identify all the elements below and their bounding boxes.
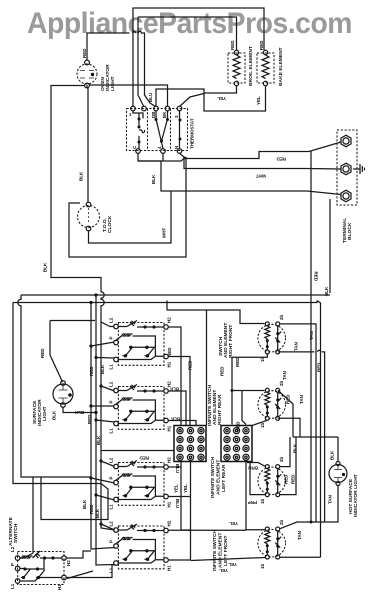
- alternate switch terminal labels: [10, 546, 71, 590]
- junction: E1 return / E2 feed: [231, 389, 234, 392]
- svg-text:THERMOSTAT: THERMOSTAT: [190, 118, 195, 149]
- svg-text:RIGHT FRONT: RIGHT FRONT: [228, 325, 234, 358]
- label: T.O.D. CLOCK: [102, 215, 113, 233]
- svg-text:BK: BK: [162, 111, 167, 118]
- switch unit 3 (left rear): [109, 457, 172, 510]
- svg-text:BLK: BLK: [96, 435, 101, 445]
- wire: grid2 col3 down to E4 top-left YEL: [246, 460, 265, 530]
- svg-text:RED: RED: [230, 40, 235, 50]
- svg-text:SWITCH: SWITCH: [13, 523, 19, 543]
- thermostat top terminals: [131, 106, 182, 111]
- wire: alt switch L2 feed: [20, 477, 33, 558]
- svg-text:BLK: BLK: [74, 410, 84, 415]
- svg-text:BLK: BLK: [52, 410, 57, 420]
- bus riser L1 (x96): [96, 295, 115, 565]
- wire: E1 1b-right to RED rail: [278, 350, 325, 437]
- label: OVEN INDICATOR LIGHT: [100, 64, 116, 91]
- manifold at y437: [293, 437, 338, 462]
- wire: oven light top to junction row: [87, 31, 156, 106]
- svg-text:BLK: BLK: [43, 262, 48, 272]
- svg-text:N: N: [174, 146, 179, 149]
- svg-text:WHT: WHT: [162, 228, 167, 238]
- wire: bake element return YEL: [204, 86, 266, 111]
- feeder diagonals to switch 1: [91, 342, 115, 358]
- wire: C terminal to BLK riser to terminal block row3: [138, 153, 341, 194]
- svg-text:RED: RED: [286, 394, 291, 404]
- svg-text:H2: H2: [66, 560, 71, 566]
- svg-text:BLK: BLK: [95, 508, 100, 518]
- wire: thermostat terminal 3 to element return: [180, 94, 205, 107]
- hot surface indicator light DS3: [329, 462, 347, 486]
- switch unit 4 (left front): [109, 520, 172, 573]
- svg-text:BLU: BLU: [148, 93, 153, 102]
- svg-text:4: 4: [157, 146, 162, 149]
- bus riser L2 (x101): [101, 322, 115, 530]
- thermostat terminal labels: [129, 111, 179, 149]
- wire: top loop to bake element: [133, 8, 264, 107]
- wire: SW3 H1 right BLU: [168, 496, 190, 498]
- wire: E3 1b-left PRP: [250, 462, 265, 495]
- svg-text:1b: 1b: [260, 563, 265, 569]
- terminal grid 1 (infinite switch right): [174, 426, 206, 462]
- wire: E1 2b to TAN rail: [280, 324, 316, 437]
- svg-text:RED: RED: [314, 272, 319, 282]
- wire: surface light feed RED: [50, 321, 95, 383]
- svg-text:YEL: YEL: [174, 484, 179, 493]
- svg-text:LEFT FRONT: LEFT FRONT: [223, 536, 229, 566]
- wire: SW4 H2 long right: [168, 529, 246, 531]
- alternate switch box: [15, 551, 66, 585]
- wire: SW2 H2 to grid: [168, 391, 186, 426]
- svg-text:RED: RED: [291, 474, 296, 484]
- svg-text:RED: RED: [139, 456, 149, 461]
- feeder diagonals to switch 2: [91, 386, 115, 422]
- svg-text:BLK: BLK: [293, 443, 298, 453]
- svg-text:YEL: YEL: [256, 96, 261, 105]
- svg-text:INDICATOR LIGHT: INDICATOR LIGHT: [353, 474, 359, 517]
- svg-text:BLK: BLK: [169, 387, 179, 392]
- svg-text:RED: RED: [235, 357, 240, 367]
- wire: N to WHT line to terminal block row2: [184, 157, 341, 169]
- svg-text:1b: 1b: [260, 498, 265, 504]
- label: SWITCH AND ELEMENT RIGHT FRONT: [218, 323, 234, 358]
- svg-text:2b: 2b: [279, 380, 284, 386]
- wire: E2 2b riser: [278, 390, 293, 437]
- label: ALTERNATE SWITCH: [8, 516, 19, 546]
- wire: feed to right front element from bus: [167, 301, 265, 426]
- label: SURFACE INDICATOR LIGHT: [32, 399, 48, 426]
- wire: alt switch H2 out: [66, 551, 91, 558]
- wire: SW4 H1 long right: [168, 559, 191, 561]
- svg-text:RIGHT REAR: RIGHT REAR: [217, 394, 223, 425]
- switch unit 1 (right front): [109, 317, 172, 370]
- wire: broil element return YEL: [156, 86, 237, 107]
- svg-text:BLK: BLK: [100, 364, 105, 374]
- wire: alt switch H1 out: [66, 565, 114, 578]
- wire: left bus drop inner: [13, 303, 108, 520]
- svg-text:RED: RED: [87, 414, 92, 424]
- element right front E1: [258, 322, 286, 354]
- wire: E1 1b-left to grid drop RED: [232, 354, 267, 425]
- bus riser P (x91): [91, 303, 115, 550]
- svg-text:L1: L1: [10, 583, 15, 589]
- wire: E3 1b-right risers RED: [280, 437, 296, 495]
- wire: SW1 H2 to grid1 col1: [168, 327, 181, 426]
- T.O.D. clock: [78, 202, 100, 231]
- svg-text:YEL: YEL: [228, 562, 237, 567]
- svg-text:3: 3: [174, 115, 179, 118]
- svg-text:RED: RED: [40, 348, 45, 358]
- wire: RED bus rail continues down: [317, 301, 321, 438]
- wire: hot light bottom TAN to E4 feed line: [280, 486, 338, 529]
- svg-text:INFINITE SWITCH: INFINITE SWITCH: [210, 457, 216, 498]
- svg-text:2b: 2b: [279, 456, 284, 462]
- svg-text:BLK: BLK: [170, 417, 180, 422]
- svg-text:1: 1: [129, 112, 132, 117]
- svg-text:TAN: TAN: [328, 495, 333, 504]
- bus RED L2 (lower horizontal): [13, 301, 317, 303]
- switch unit 2 (right rear): [109, 381, 172, 434]
- thermostat dashed box: [127, 109, 188, 151]
- svg-text:BLK: BLK: [82, 499, 87, 509]
- element left front E4: [258, 527, 286, 559]
- svg-text:L2: L2: [10, 546, 15, 552]
- bus BLK L1 (upper horizontal): [21, 294, 330, 296]
- oven indicator light DS1: [77, 60, 97, 88]
- terminal block dashed box: [337, 130, 357, 205]
- wire: clock loop (N terminal around clock): [69, 153, 186, 257]
- wire: E4 1b-right to rail: [280, 556, 321, 558]
- wire: RED line from thermostat to terminal block row1: [138, 142, 341, 161]
- svg-text:BAKE ELEMENT: BAKE ELEMENT: [278, 47, 284, 86]
- svg-text:TAN: TAN: [299, 395, 304, 404]
- svg-text:TAN: TAN: [297, 531, 302, 540]
- label: INFINITE SWITCH AND ELEMENT LEFT FRONT: [212, 530, 229, 571]
- label: HOT SURFACE INDICATOR LIGHT: [348, 474, 359, 517]
- svg-text:2b: 2b: [279, 314, 284, 320]
- wire: oven light bottom left run to switch bus: [51, 86, 114, 327]
- svg-text:CLOCK: CLOCK: [107, 215, 113, 233]
- svg-text:C: C: [132, 145, 137, 149]
- wire: oven light down to clock: [87, 88, 89, 202]
- svg-text:AND ELEMENT: AND ELEMENT: [216, 460, 222, 495]
- svg-text:LIGHT: LIGHT: [42, 406, 48, 421]
- wire: SW3 H2 right BLU: [168, 466, 181, 468]
- svg-text:TAN: TAN: [282, 371, 287, 380]
- wire: grid2 to E3 2b BRN: [247, 463, 265, 467]
- thermostat internals section 1: [133, 111, 145, 149]
- svg-text:BLK: BLK: [151, 174, 156, 184]
- wire: grid1 col drops YEL staircase to E4 1b-left: [181, 460, 265, 561]
- svg-text:DB: DB: [151, 111, 156, 118]
- svg-text:INFINITE SWITCH: INFINITE SWITCH: [212, 530, 218, 571]
- wire: RED drop from terminal 1 to bus: [310, 152, 312, 301]
- svg-text:RED: RED: [167, 347, 172, 357]
- wire: clock bottom to WHT riser: [89, 192, 172, 244]
- label: TERMINAL BLOCK: [342, 218, 353, 243]
- svg-text:BLK: BLK: [79, 171, 84, 181]
- svg-text:YEL: YEL: [219, 568, 228, 573]
- label: INFINITE SWITCH AND ELEMENT RIGHT REAR: [207, 385, 223, 426]
- svg-text:LEFT REAR: LEFT REAR: [221, 464, 227, 492]
- thermostat internals section 3: [179, 111, 182, 149]
- svg-text:TAN: TAN: [294, 342, 299, 351]
- svg-text:BROIL ELEMENT: BROIL ELEMENT: [248, 46, 254, 86]
- svg-text:WHT: WHT: [256, 174, 266, 179]
- svg-text:BLU: BLU: [175, 499, 180, 508]
- svg-text:BLOCK: BLOCK: [347, 222, 353, 240]
- terminal grid 2 (infinite switch left): [221, 426, 252, 462]
- svg-text:YEL: YEL: [183, 484, 188, 493]
- svg-text:BLU: BLU: [175, 464, 180, 473]
- thermostat internals section 2 (switch to terminal 4): [155, 111, 170, 149]
- svg-text:RED: RED: [89, 366, 94, 376]
- pointer line to H1: [67, 571, 93, 579]
- bake element dashed box: [257, 50, 274, 85]
- feeder diagonals to switch 4: [101, 524, 115, 530]
- wire: second loop to broil element: [138, 17, 237, 106]
- svg-text:RED: RED: [89, 504, 94, 514]
- ground symbol at middle terminal: [353, 164, 365, 174]
- element left rear E3: [258, 465, 286, 497]
- element right rear E2: [258, 388, 286, 420]
- svg-text:RED: RED: [316, 362, 321, 372]
- wire: left bus drop outer: [18, 295, 90, 477]
- terminal block screws: [341, 135, 351, 202]
- svg-text:1b: 1b: [260, 422, 265, 428]
- thermostat bottom terminals: [136, 149, 182, 154]
- svg-text:AND ELEMENT: AND ELEMENT: [218, 533, 224, 568]
- svg-text:H1: H1: [57, 584, 62, 590]
- wire: SW2 H1 to grid: [168, 421, 196, 426]
- svg-text:RED: RED: [220, 366, 225, 376]
- wire: surface light bottom BLK: [63, 407, 96, 412]
- broil element dashed box: [228, 50, 245, 85]
- wire: oven light bottom to BK terminal: [87, 85, 168, 107]
- rails continue below manifold: [316, 437, 325, 557]
- wire: E2 1b-right riser: [278, 418, 300, 437]
- svg-text:RED: RED: [284, 474, 289, 484]
- wire: E2 1b-left to grid2: [252, 420, 267, 425]
- wire: SW1 H1 to grid1 col2: [168, 357, 190, 426]
- surface indicator light DS2: [53, 381, 73, 408]
- feeder diagonals to switch 3: [91, 461, 115, 500]
- svg-text:YEL: YEL: [229, 521, 238, 526]
- bus junction dots: [89, 293, 102, 525]
- svg-text:PRP: PRP: [248, 500, 257, 505]
- svg-text:2b: 2b: [279, 519, 284, 525]
- svg-text:RED: RED: [188, 360, 193, 370]
- svg-text:BLK: BLK: [330, 450, 335, 460]
- wire: RED rail from terminal block down to E4 feed: [310, 300, 312, 522]
- wire: RED jumper above SW3: [101, 450, 174, 452]
- svg-text:RED: RED: [82, 48, 87, 58]
- svg-text:RED: RED: [276, 157, 286, 162]
- junction dot on E4 feed: [310, 521, 313, 524]
- svg-text:AppliancePartsPros.com: AppliancePartsPros.com: [27, 7, 352, 40]
- svg-text:YEL: YEL: [217, 96, 226, 101]
- svg-text:RED: RED: [236, 421, 241, 431]
- svg-text:RED: RED: [259, 40, 264, 50]
- svg-text:P: P: [10, 563, 15, 566]
- svg-text:LIGHT: LIGHT: [110, 76, 116, 91]
- label: INFINITE SWITCH AND ELEMENT LEFT REAR: [210, 457, 227, 498]
- wire: BLK drop from terminal 3 to bus: [329, 199, 331, 293]
